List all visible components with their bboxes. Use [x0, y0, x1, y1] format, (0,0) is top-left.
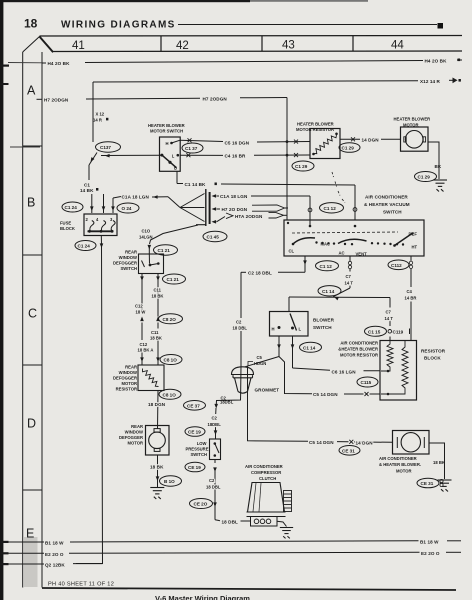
C145 right side pins	[212, 194, 217, 198]
svg-text:DEFOGGER: DEFOGGER	[113, 376, 137, 381]
svg-text:C8 2O: C8 2O	[163, 317, 177, 322]
connector C8 10 ellipse (above resistor)	[160, 355, 182, 365]
wires resume below C8 20	[142, 323, 158, 366]
svg-text:SWITCH: SWITCH	[383, 210, 402, 215]
svg-text:H4 2O BK: H4 2O BK	[425, 59, 448, 64]
svg-text:MOTOR RESISTOR: MOTOR RESISTOR	[296, 127, 334, 132]
svg-text:HDGN: HDGN	[254, 361, 266, 366]
ground (compressor clutch)	[280, 528, 293, 539]
wire Q2 12BK	[8, 563, 103, 565]
ground (defogger motor)	[150, 488, 164, 500]
title rule	[178, 24, 437, 26]
wire motor to ground	[429, 443, 445, 479]
heater blower motor resistor	[310, 129, 340, 159]
svg-text:C7: C7	[386, 310, 392, 315]
svg-text:C2: C2	[236, 320, 242, 325]
connector CE 31 ellipse (on motor feed)	[339, 446, 360, 456]
svg-text:H7 2ODGN: H7 2ODGN	[44, 97, 69, 102]
switch contact dots	[292, 232, 414, 247]
wire H4 20BK	[42, 60, 462, 63]
svg-text:C115: C115	[361, 380, 372, 385]
wire H7 20DGN	[86, 98, 287, 221]
connector C1 14 ellipse (on blower switch feed)	[318, 286, 341, 296]
switch contact arc CL-MAC	[293, 238, 315, 244]
svg-text:L: L	[172, 154, 175, 159]
svg-text:PRESSURE: PRESSURE	[185, 447, 208, 452]
svg-text:REAR: REAR	[131, 424, 143, 429]
svg-text:C1 14: C1 14	[303, 346, 316, 351]
svg-text:C12: C12	[135, 304, 143, 309]
svg-text:X12 14 R: X12 14 R	[420, 79, 441, 84]
svg-text:DEFOGGER: DEFOGGER	[119, 435, 143, 440]
connector C1 15 ellipse	[365, 326, 387, 336]
svg-text:HEATER BLOWER: HEATER BLOWER	[297, 122, 334, 127]
inline connector on C1A drop	[308, 208, 312, 212]
svg-text:WINDOW: WINDOW	[125, 430, 143, 435]
svg-text:DEF: DEF	[409, 232, 418, 237]
svg-text:B1 18 W: B1 18 W	[420, 539, 439, 544]
svg-text:C1A 18 LGN: C1A 18 LGN	[122, 195, 150, 200]
svg-text:C1 37: C1 37	[185, 146, 198, 151]
clutch rotor plates	[284, 491, 292, 512]
svg-text:Q2 12BK: Q2 12BK	[45, 562, 65, 567]
svg-text:MOTOR SWITCH: MOTOR SWITCH	[150, 129, 183, 134]
rear window defogger switch	[139, 254, 164, 274]
svg-text:C11: C11	[151, 330, 159, 335]
svg-text:AIR CONDITIONER: AIR CONDITIONER	[379, 456, 417, 461]
letter column crossing dash (B row)	[10, 146, 40, 148]
svg-text:C1 21: C1 21	[158, 248, 171, 253]
wire 18 DGN (resistor to motor)	[157, 391, 160, 429]
svg-text:C5: C5	[257, 355, 263, 360]
connector C1 29 ellipse (below resistor)	[292, 161, 314, 171]
connector C1 29 ellipse (right of resistor)	[339, 143, 360, 153]
connector C112 ellipse (below switch right)	[388, 260, 409, 270]
connector C145 ellipse	[203, 231, 227, 241]
svg-text:44: 44	[391, 40, 404, 52]
svg-text:18 DBL: 18 DBL	[206, 485, 221, 490]
wire H7 20DGN left stub	[37, 98, 43, 100]
wire C5 16 DGN (switch H to resistor)	[180, 140, 310, 142]
svg-text:MOTOR: MOTOR	[127, 441, 143, 446]
svg-text:4: 4	[96, 217, 99, 222]
connector C1 29 ellipse (at motor ground)	[415, 172, 437, 182]
svg-text:C5 14 DGN: C5 14 DGN	[309, 440, 334, 445]
switch contact lever DEF-HT	[395, 234, 413, 246]
svg-text:PH 40 SHEET 11 OF 12: PH 40 SHEET 11 OF 12	[48, 582, 114, 588]
wire CL output / C2 18 DBL	[241, 256, 305, 367]
connector CE 31 ellipse (at motor ground)	[417, 478, 439, 488]
wire E2 20 O	[8, 552, 461, 553]
svg-text:14LGN: 14LGN	[139, 234, 153, 239]
connector C1 12 ellipse (above switch)	[320, 203, 344, 213]
air conditioner & heater blower motor	[393, 431, 430, 455]
blower switch L output	[293, 336, 381, 371]
svg-text:H7 2O DGN: H7 2O DGN	[222, 207, 248, 212]
svg-text:HT: HT	[412, 245, 418, 250]
long feed wire from fuse block down to Q2 12BK	[76, 236, 103, 564]
svg-text:C1 21: C1 21	[167, 277, 180, 282]
ground (heater blower motor)	[433, 180, 447, 192]
svg-text:14 BK: 14 BK	[80, 188, 94, 193]
row letter column	[23, 37, 42, 588]
svg-text:E2 2O O: E2 2O O	[45, 552, 64, 557]
svg-text:18 BK: 18 BK	[150, 464, 164, 469]
svg-text:C7: C7	[346, 274, 352, 279]
svg-text:C1 24: C1 24	[78, 244, 91, 249]
svg-text:REAR: REAR	[125, 365, 137, 370]
svg-text:MOTOR RESISTOR: MOTOR RESISTOR	[340, 353, 378, 358]
svg-text:C1 29: C1 29	[295, 164, 308, 169]
svg-text:RESISTOR: RESISTOR	[116, 387, 137, 392]
connector C8 20 (inline pair)	[140, 317, 144, 322]
svg-text:HEATER BLOWER: HEATER BLOWER	[394, 117, 431, 122]
svg-text:CE 37: CE 37	[187, 404, 200, 409]
air conditioner compressor clutch	[247, 483, 286, 527]
branch from C137 to heater blower motor switch	[101, 154, 162, 156]
wire HTA 20DGN flag	[217, 217, 226, 222]
wire C1A 18 LGN (right side, to vacuum switch)	[217, 196, 311, 226]
svg-text:C2: C2	[209, 478, 215, 483]
wire C5 through grommet down to A/C motor	[248, 367, 393, 443]
svg-text:18 W: 18 W	[136, 309, 146, 314]
svg-text:DEFOGGER: DEFOGGER	[113, 261, 137, 266]
svg-text:C112: C112	[391, 263, 402, 268]
resistor block	[380, 341, 417, 401]
grommet	[232, 367, 254, 393]
connector CE 37 ellipse	[184, 401, 206, 411]
connector C137 ellipse (left)	[96, 142, 121, 152]
svg-text:B: B	[27, 196, 35, 210]
svg-text:C8 1O: C8 1O	[163, 393, 177, 398]
svg-text:MOTOR: MOTOR	[396, 468, 412, 473]
svg-text:SWITCH: SWITCH	[190, 452, 207, 457]
main frame bottom border	[42, 588, 456, 590]
svg-text:MOTOR: MOTOR	[121, 381, 137, 386]
svg-text:C4: C4	[407, 289, 413, 294]
wire 14 DGN (resistor to motor)	[340, 138, 401, 140]
svg-text:AC: AC	[339, 251, 345, 256]
svg-text:C1O: C1O	[142, 228, 151, 233]
edge dash	[1, 83, 9, 85]
svg-text:18 DBL: 18 DBL	[222, 519, 239, 524]
connector CE 20 ellipse	[190, 499, 213, 509]
svg-text:E: E	[26, 527, 34, 541]
svg-text:BLOCK: BLOCK	[424, 356, 441, 361]
svg-text:18DBL: 18DBL	[220, 400, 234, 405]
edge dash	[1, 65, 10, 67]
connector O 24 ellipse (right of fuse wires)	[117, 203, 139, 213]
wire 18 BK to ground	[157, 458, 159, 487]
svg-text:43: 43	[282, 40, 295, 52]
svg-text:AIR CONDITIONER: AIR CONDITIONER	[365, 195, 408, 200]
wire C2 18 DBL below LPS	[215, 460, 250, 522]
svg-text:REAR: REAR	[125, 250, 137, 255]
svg-text:C1 29: C1 29	[418, 175, 431, 180]
blower switch	[270, 312, 309, 337]
air conditioner & heater vacuum switch body	[284, 220, 424, 256]
svg-text:CE 31: CE 31	[342, 449, 355, 454]
svg-text:C1 12: C1 12	[320, 264, 333, 269]
svg-text:& HEATER VACUUM: & HEATER VACUUM	[364, 202, 410, 207]
heater blower motor switch U	[160, 137, 181, 171]
svg-text:C1 45: C1 45	[207, 235, 220, 240]
page scan edge artifacts	[0, 0, 250, 2]
svg-text:18 DGN: 18 DGN	[148, 402, 166, 407]
svg-text:CE 31: CE 31	[421, 481, 434, 486]
svg-text:HEATER BLOWER: HEATER BLOWER	[148, 123, 185, 128]
svg-text:GROMMET: GROMMET	[255, 388, 280, 393]
connector flag X12 right end	[453, 78, 458, 84]
svg-text:H4 2O BK: H4 2O BK	[48, 61, 71, 66]
svg-text:18 BK: 18 BK	[150, 335, 162, 340]
svg-text:C8 1O: C8 1O	[164, 358, 178, 363]
svg-text:B1 18 W: B1 18 W	[45, 541, 64, 546]
svg-text:O 24: O 24	[122, 206, 132, 211]
svg-text:C1 12: C1 12	[324, 206, 337, 211]
svg-text:C5 14 DGN: C5 14 DGN	[313, 392, 338, 397]
wire HT output C4 14 BR	[410, 256, 412, 341]
svg-text:BLOWER: BLOWER	[313, 318, 335, 323]
svg-text:B 1O: B 1O	[164, 479, 175, 484]
svg-text:18DBL: 18DBL	[208, 422, 222, 427]
svg-text:AIR CONDITIONER: AIR CONDITIONER	[340, 341, 378, 346]
connector CE 19 ellipse (above LPS)	[185, 427, 205, 437]
svg-text:42: 42	[176, 40, 189, 52]
svg-text:CE 2O: CE 2O	[194, 502, 208, 507]
svg-text:18 BK: 18 BK	[433, 460, 445, 465]
svg-text:BK: BK	[435, 164, 442, 169]
svg-text:C1 24: C1 24	[65, 205, 78, 210]
svg-text:CLUTCH: CLUTCH	[259, 476, 276, 481]
grid header row	[40, 36, 463, 53]
connector C1 37 ellipse (on H wire)	[182, 143, 203, 153]
connector C1 21 ellipse (above defogger switch)	[154, 245, 178, 255]
svg-text:14 R: 14 R	[93, 118, 102, 123]
svg-text:C119: C119	[393, 330, 404, 335]
svg-text:CE 19: CE 19	[188, 465, 201, 470]
wire X12 14R	[93, 80, 453, 142]
wire AC/VENT output C7 14 T	[289, 256, 390, 341]
inline connector on C1-14BK drop	[353, 208, 357, 212]
svg-text:SWITCH: SWITCH	[313, 325, 332, 330]
wire C2 from grommet to low pressure switch	[216, 367, 242, 440]
connector C1 14 ellipse (below blower switch)	[300, 342, 322, 352]
svg-text:FUSE: FUSE	[60, 221, 71, 226]
svg-text:C1 14: C1 14	[322, 289, 335, 294]
connector C119 marks	[388, 330, 392, 334]
wire C10 14LGN (C145 to defogger switch)	[149, 225, 198, 254]
svg-text:& HEATER BLOWER.: & HEATER BLOWER.	[379, 462, 421, 467]
svg-text:C1: C1	[84, 183, 90, 188]
svg-text:X 12: X 12	[96, 112, 105, 117]
svg-text:CE 19: CE 19	[188, 430, 201, 435]
wire B1 18 W	[8, 541, 461, 542]
svg-text:C11: C11	[154, 288, 162, 293]
svg-text:C: C	[28, 307, 37, 321]
svg-text:WINDOW: WINDOW	[119, 255, 137, 260]
fuse block	[84, 214, 117, 236]
svg-text:14 DGN: 14 DGN	[356, 441, 374, 446]
svg-text:BLOCK: BLOCK	[60, 226, 75, 231]
svg-text:H: H	[166, 141, 169, 146]
svg-text:H: H	[272, 326, 275, 331]
svg-text:A: A	[27, 84, 36, 98]
svg-text:AIR CONDITIONER: AIR CONDITIONER	[245, 464, 283, 469]
switch contact arc AC-VENT	[338, 239, 367, 243]
svg-text:CL: CL	[289, 249, 295, 254]
scan smudge in letter column bottom	[24, 537, 38, 587]
svg-text:WINDOW: WINDOW	[119, 370, 137, 375]
svg-text:WIRING DIAGRAMS: WIRING DIAGRAMS	[61, 20, 176, 31]
heater blower motor	[401, 127, 429, 151]
svg-text:14 T: 14 T	[345, 280, 354, 285]
connector C1 24 ellipse (below fuse block)	[75, 241, 96, 251]
svg-text:D: D	[27, 417, 36, 431]
blower switch H output	[245, 336, 380, 394]
bulkhead connector C145	[196, 189, 210, 226]
svg-text:L: L	[299, 326, 302, 331]
low pressure switch	[210, 439, 221, 460]
clutch ground wire	[277, 521, 287, 526]
wire C1 14 BK (switch B to vacuum switch)	[177, 171, 355, 220]
svg-text:H7 2ODGN: H7 2ODGN	[203, 96, 228, 101]
svg-text:2: 2	[86, 217, 89, 222]
svg-text:RESISTOR: RESISTOR	[421, 349, 446, 354]
rear window defogger motor resistor	[138, 365, 164, 391]
svg-text:SWITCH: SWITCH	[120, 266, 137, 271]
svg-text:C2: C2	[212, 416, 218, 421]
connector C1 12 ellipse (below switch)	[316, 261, 339, 271]
svg-text:18 DBL: 18 DBL	[233, 326, 248, 331]
svg-text:C1A 18 LGN: C1A 18 LGN	[220, 194, 248, 199]
connector CE 19 ellipse (below LPS)	[185, 462, 205, 472]
svg-text:14 DGN: 14 DGN	[362, 137, 380, 142]
svg-text:18: 18	[24, 17, 38, 31]
wire from C137 down to fuse block	[89, 153, 97, 181]
wires into fuse block terminals	[92, 194, 121, 213]
svg-text:VENT: VENT	[356, 252, 368, 257]
svg-text:LOW: LOW	[197, 441, 207, 446]
svg-text:18 BK: 18 BK	[152, 293, 164, 298]
svg-text:C6 16 LGN: C6 16 LGN	[332, 370, 357, 375]
svg-text:C1 15: C1 15	[368, 330, 381, 335]
svg-text:41: 41	[72, 40, 85, 52]
svg-text:V-6 Master Wiring Diagram: V-6 Master Wiring Diagram	[155, 594, 250, 600]
svg-text:18 BK A: 18 BK A	[138, 347, 154, 352]
wire C4 16 BR (switch L to resistor)	[180, 154, 310, 156]
svg-text:C5 16 DGN: C5 16 DGN	[225, 140, 250, 145]
connector C1 24 ellipse (left of fuse wires)	[62, 202, 83, 212]
svg-text:3: 3	[110, 217, 113, 222]
rear window defogger motor	[146, 426, 170, 459]
svg-text:C1 29: C1 29	[342, 146, 355, 151]
wire BK (motor to ground)	[429, 142, 440, 179]
wire C1A to connector	[152, 194, 205, 222]
svg-text:14 T: 14 T	[385, 316, 394, 321]
connector C1 21 ellipse (below defogger switch)	[163, 274, 186, 284]
svg-text:C137: C137	[100, 145, 111, 150]
svg-text:C12: C12	[140, 342, 148, 347]
svg-text:E2 2O O: E2 2O O	[421, 551, 440, 556]
svg-text:C1 14 BK: C1 14 BK	[185, 182, 207, 187]
svg-text:HTA 2ODGN: HTA 2ODGN	[235, 214, 263, 219]
svg-text:C4 16 BR: C4 16 BR	[225, 153, 247, 158]
svg-text:14 BR: 14 BR	[405, 296, 417, 301]
svg-text:C2 18 DBL: C2 18 DBL	[248, 271, 272, 276]
defogger switch output wires	[142, 274, 158, 317]
svg-text:COMPRESSOR: COMPRESSOR	[251, 470, 281, 475]
ground (A/C blower motor)	[438, 480, 452, 492]
vacuum hose dashes	[332, 172, 345, 203]
svg-text:MAC: MAC	[321, 242, 331, 247]
connector B 10 ellipse	[160, 476, 182, 486]
connector C8 10 ellipse (below resistor)	[159, 389, 181, 399]
wire H7 20 DGN flag	[217, 208, 221, 210]
svg-text:&HEATER BLOWER: &HEATER BLOWER	[338, 347, 378, 352]
connector C115 ellipse (left of resistor block)	[357, 377, 378, 387]
wire H4 20BK left stub through letter column	[8, 62, 42, 64]
